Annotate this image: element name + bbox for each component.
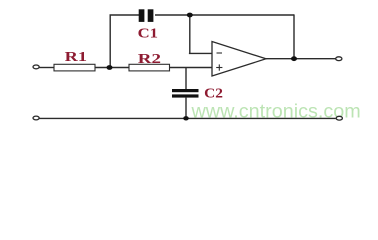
resistor R1 [54, 64, 95, 71]
resistor R2 [129, 64, 170, 71]
svg-text:C1: C1 [138, 27, 158, 42]
wire input to R1 [39, 67, 54, 69]
wire op-amp output [266, 58, 336, 60]
svg-text:C2: C2 [204, 86, 223, 101]
svg-text:R1: R1 [65, 50, 87, 65]
capacitor C2 [172, 89, 199, 98]
ground node junction dot [183, 116, 189, 120]
input terminal [33, 65, 39, 69]
wire branch down to C2 [185, 68, 187, 90]
capacitor C1 [139, 9, 154, 22]
op-amp plus sign [216, 64, 222, 70]
svg-text:R2: R2 [138, 52, 161, 67]
wire R1 to R2 [95, 67, 129, 69]
output terminal [336, 57, 342, 61]
wire ground rail [39, 117, 335, 119]
ground terminal left [33, 116, 39, 120]
wire R2 to op-amp plus input [170, 67, 213, 69]
node A junction dot [107, 65, 113, 70]
wire C1 to top-right corner [155, 14, 294, 16]
output node junction dot [291, 56, 297, 61]
svg-text:www.cntronics.com: www.cntronics.com [191, 101, 361, 123]
wire to minus input [189, 52, 212, 54]
wire node B down to minus input [189, 15, 191, 53]
wire node A up to top rail [109, 15, 111, 68]
wire C2 bottom to ground rail [185, 98, 187, 119]
ground terminal right [336, 116, 342, 120]
op-amp U1 [212, 42, 266, 77]
wire top rail left segment to C1 [110, 14, 140, 16]
node B junction dot [187, 13, 193, 18]
wire top-right corner down to output node [293, 14, 295, 58]
op-amp minus sign [217, 52, 223, 54]
